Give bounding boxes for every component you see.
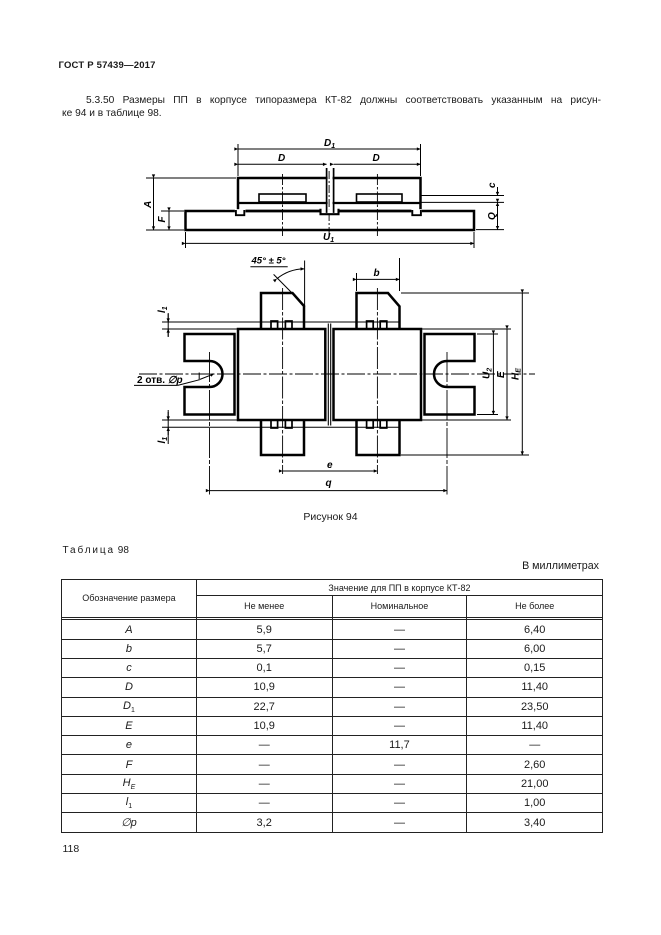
slot centerline right bbox=[446, 352, 448, 495]
label q bbox=[326, 478, 332, 489]
left ear with slot bbox=[185, 334, 235, 415]
body edge extension top bbox=[162, 328, 238, 330]
center gap eraser bbox=[328, 176, 333, 209]
page number bbox=[63, 843, 80, 855]
svg-text:b: b bbox=[374, 268, 380, 279]
svg-text:q: q bbox=[326, 478, 332, 489]
svg-text:l1: l1 bbox=[157, 437, 169, 444]
dimension U2 bbox=[477, 334, 498, 415]
lead squares top bbox=[271, 321, 387, 329]
table 98 bbox=[61, 579, 603, 833]
label A bbox=[143, 201, 154, 209]
terminal bottom-left bbox=[261, 420, 304, 455]
seating line bottom bbox=[162, 426, 400, 428]
svg-text:F: F bbox=[157, 216, 168, 223]
svg-text:U1: U1 bbox=[323, 232, 334, 244]
label D1 bbox=[324, 138, 335, 150]
mounting notch center bbox=[321, 209, 339, 214]
dimension b bbox=[357, 258, 400, 291]
cap outline bbox=[238, 178, 421, 211]
mounting notch right bbox=[412, 210, 421, 215]
label c bbox=[487, 182, 498, 188]
dimension D1 bbox=[238, 144, 421, 176]
svg-text:2 отв. ∅p: 2 отв. ∅p bbox=[137, 375, 183, 386]
label 2 holes diameter p bbox=[137, 375, 183, 386]
svg-text:D: D bbox=[278, 153, 285, 164]
label U1 bbox=[323, 232, 334, 244]
dimension D left bbox=[238, 163, 327, 165]
notch erasers bbox=[235, 209, 422, 214]
label U2 bbox=[482, 368, 494, 379]
mounting notch left bbox=[236, 210, 244, 215]
units note bbox=[62, 560, 599, 572]
vertical centerline left terminals bbox=[282, 288, 284, 474]
label Q bbox=[487, 212, 498, 220]
45 degree callout bbox=[250, 261, 304, 308]
svg-text:Q: Q bbox=[487, 212, 498, 220]
dimension F bbox=[161, 211, 184, 230]
terminal top-right bbox=[357, 293, 400, 329]
dimension E bbox=[422, 329, 511, 420]
center terminal lines bbox=[327, 168, 334, 213]
svg-text:E: E bbox=[496, 371, 507, 378]
svg-text:e: e bbox=[327, 460, 333, 471]
seating line top bbox=[162, 321, 400, 323]
label l1 bottom bbox=[157, 437, 169, 444]
svg-text:l1: l1 bbox=[157, 306, 169, 313]
centerline right half bbox=[376, 174, 378, 236]
dimension l1 top bbox=[167, 313, 169, 337]
label D left bbox=[278, 153, 285, 164]
lead squares bottom bbox=[271, 420, 387, 428]
body edge extension bottom bbox=[162, 419, 238, 421]
label HE bbox=[511, 368, 523, 380]
terminal bottom-right bbox=[357, 420, 400, 455]
right ear with slot bbox=[425, 334, 475, 415]
svg-text:U2: U2 bbox=[482, 368, 494, 379]
running head ГОСТ Р 57439—2017 bbox=[59, 60, 156, 71]
label 45 degrees bbox=[251, 256, 286, 267]
dimension l1 bottom bbox=[167, 410, 169, 444]
terminal top-left bbox=[261, 293, 304, 329]
svg-text:c: c bbox=[487, 182, 498, 188]
svg-text:A: A bbox=[143, 201, 154, 209]
body right square bbox=[334, 329, 422, 420]
svg-text:HE: HE bbox=[511, 368, 523, 380]
dimension q bbox=[210, 490, 448, 492]
paragraph 5.3.50 bbox=[62, 94, 601, 120]
center axis line bbox=[328, 171, 330, 236]
dimension D right bbox=[334, 163, 421, 165]
dimension A bbox=[146, 178, 236, 230]
svg-text:D1: D1 bbox=[324, 138, 335, 150]
centerline left half bbox=[282, 174, 284, 236]
label E bbox=[496, 371, 507, 378]
dimension Q bbox=[476, 202, 504, 229]
center gap lines bbox=[328, 324, 330, 426]
dimension HE bbox=[401, 293, 529, 455]
leader 2 holes bbox=[134, 373, 214, 386]
dimension e bbox=[283, 470, 378, 472]
right pad bbox=[357, 194, 403, 202]
svg-text:D: D bbox=[373, 153, 380, 164]
figure caption bbox=[62, 511, 599, 523]
slot centerline left bbox=[209, 352, 211, 495]
label F bbox=[157, 216, 168, 223]
dimension c bbox=[421, 187, 504, 211]
table label bbox=[63, 545, 129, 556]
horizontal centerline bbox=[139, 373, 535, 375]
left pad bbox=[259, 194, 306, 202]
label b bbox=[374, 268, 380, 279]
label e bbox=[327, 460, 333, 471]
body left square bbox=[238, 329, 325, 420]
dimension U1 bbox=[186, 232, 475, 248]
label l1 top bbox=[157, 306, 169, 313]
svg-text:45° ± 5°: 45° ± 5° bbox=[251, 256, 286, 267]
vertical centerline right terminals bbox=[376, 288, 378, 474]
label D right bbox=[373, 153, 380, 164]
flange outline bbox=[186, 211, 475, 230]
